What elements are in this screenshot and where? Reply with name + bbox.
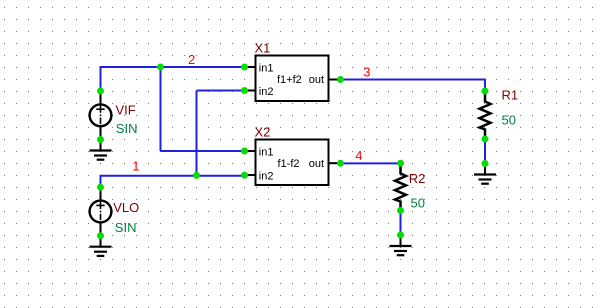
svg-text:f1+f2: f1+f2 bbox=[277, 74, 302, 86]
X2 pin stub in2 bbox=[245, 174, 256, 176]
wire node2 branch vertical to X2 bbox=[160, 67, 162, 151]
svg-text:out: out bbox=[309, 158, 324, 170]
pin dot VIF top bbox=[97, 88, 104, 95]
wire node3 horizontal from X1 out bbox=[341, 79, 486, 81]
pin dot X2 out bbox=[337, 160, 344, 167]
wire node3 vertical to R1 bbox=[484, 79, 486, 92]
svg-text:2: 2 bbox=[188, 52, 195, 67]
svg-text:50: 50 bbox=[502, 112, 516, 127]
pin dot X1 in1 bbox=[241, 64, 248, 71]
pin dot R2 bottom bbox=[397, 207, 404, 214]
svg-text:SIN: SIN bbox=[115, 220, 137, 235]
ground below R2 bbox=[390, 235, 412, 255]
pin dot R1 bottom bbox=[482, 136, 489, 143]
pin dot VLO top bbox=[97, 184, 104, 191]
wire node1 horizontal to X2 in2 bbox=[100, 175, 245, 177]
X1 pin stub in1 bbox=[245, 66, 256, 68]
svg-text:X2: X2 bbox=[255, 124, 271, 139]
svg-text:VIF: VIF bbox=[116, 103, 136, 118]
voltage source V2 VLO bbox=[90, 187, 112, 236]
svg-text:f1-f2: f1-f2 bbox=[278, 158, 300, 170]
pin dot X2 in1 bbox=[241, 148, 248, 155]
ground below R1 bbox=[474, 164, 496, 184]
junction dot node2 bbox=[157, 64, 164, 71]
block X1 box bbox=[256, 56, 329, 102]
block X2 box bbox=[256, 140, 329, 186]
wire node1 vertical from VLO bbox=[100, 176, 102, 188]
wire node4 horizontal from X2 out bbox=[341, 162, 401, 164]
svg-text:4: 4 bbox=[355, 148, 362, 163]
pin dot VIF bottom bbox=[97, 136, 104, 143]
pin dot R2 ground bbox=[397, 232, 404, 239]
pin dot X1 out bbox=[337, 76, 344, 83]
X1 pin stub in2 bbox=[245, 90, 256, 92]
wire R1 to ground bbox=[484, 139, 486, 163]
junction dot node1 bbox=[193, 172, 200, 179]
ground below VIF bbox=[90, 140, 112, 160]
wire R2 to ground bbox=[400, 211, 402, 235]
pin dot X1 in2 bbox=[241, 87, 248, 94]
pin dot VLO bottom bbox=[97, 232, 104, 239]
svg-text:in2: in2 bbox=[259, 171, 274, 183]
svg-text:50: 50 bbox=[411, 195, 425, 210]
ground below VLO bbox=[90, 236, 112, 256]
pin dot R1 ground bbox=[482, 160, 489, 167]
wire node2 vertical from VIF bbox=[100, 67, 102, 91]
svg-text:in2: in2 bbox=[259, 86, 274, 98]
svg-text:R1: R1 bbox=[502, 87, 519, 102]
X2 pin stub out bbox=[329, 162, 341, 164]
svg-text:in1: in1 bbox=[259, 63, 274, 75]
svg-text:SIN: SIN bbox=[116, 121, 138, 136]
svg-text:in1: in1 bbox=[259, 147, 274, 159]
svg-text:1: 1 bbox=[132, 159, 139, 174]
resistor R1 body bbox=[480, 91, 491, 139]
wire node2 horizontal to X1 in1 bbox=[100, 66, 245, 68]
svg-text:VLO: VLO bbox=[113, 200, 139, 215]
X2 pin stub in1 bbox=[245, 150, 256, 152]
wire node1 branch vertical to X1 bbox=[196, 91, 198, 176]
wire node1 branch horizontal to X1 in2 bbox=[197, 90, 245, 92]
pin dot R2 top bbox=[397, 160, 404, 167]
X1 pin stub out bbox=[329, 79, 341, 81]
svg-text:3: 3 bbox=[363, 64, 370, 79]
svg-text:X1: X1 bbox=[255, 40, 271, 55]
svg-text:R2: R2 bbox=[409, 171, 426, 186]
resistor R2 body bbox=[395, 163, 406, 211]
pin dot X2 in2 bbox=[241, 172, 248, 179]
svg-text:out: out bbox=[309, 74, 324, 86]
wire node2 branch horizontal to X2 in1 bbox=[161, 150, 245, 152]
voltage source V1 VIF bbox=[90, 91, 112, 140]
pin dot R1 top bbox=[482, 88, 489, 95]
